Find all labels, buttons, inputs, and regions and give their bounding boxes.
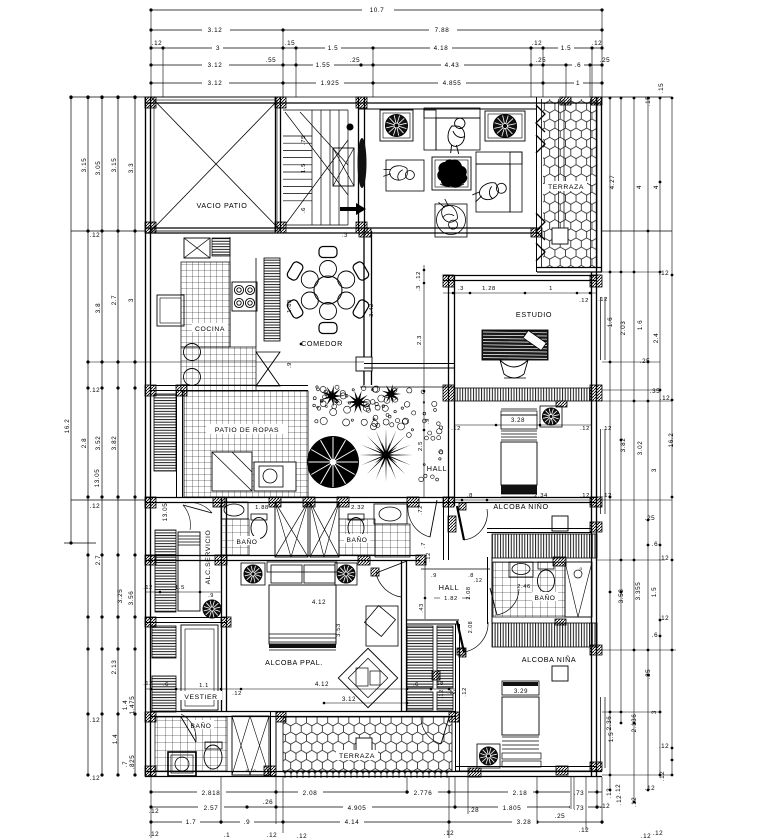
banio master shower [232, 716, 269, 775]
wall stairs right [358, 97, 360, 231]
vestier striped closet lower [152, 676, 176, 712]
wall vestier top [145, 617, 227, 619]
banio master sink [168, 752, 196, 776]
dimension extension verticals top [150, 10, 152, 97]
svg-text:.12: .12 [641, 833, 652, 839]
banio left sink [221, 502, 248, 519]
chair with person bottom [435, 204, 467, 237]
banio nina shower [565, 562, 592, 617]
svg-text:2.18: 2.18 [513, 790, 528, 797]
svg-text:2.3: 2.3 [417, 335, 423, 345]
banio nina sink [509, 562, 533, 577]
cocina fridge [157, 295, 184, 326]
svg-text:.12: .12 [532, 40, 543, 47]
stair box with X [333, 148, 354, 186]
top wall [145, 102, 602, 104]
svg-text:.12: .12 [659, 615, 670, 622]
wall below living room [145, 227, 537, 229]
svg-text:3.8: 3.8 [95, 303, 102, 314]
svg-text:1.6: 1.6 [607, 317, 614, 328]
svg-text:o: o [579, 566, 582, 571]
svg-text:.15: .15 [658, 83, 665, 94]
svg-text:1.5: 1.5 [175, 585, 185, 591]
svg-text:3: 3 [128, 298, 135, 302]
alcoba nina dresser [502, 753, 541, 759]
svg-text:.55: .55 [266, 57, 277, 64]
estudio chair [500, 360, 528, 378]
wall cocina/patio boundary [151, 385, 308, 387]
svg-text:.26: .26 [263, 799, 274, 806]
svg-text:.3: .3 [416, 285, 422, 291]
svg-text:.25: .25 [640, 358, 651, 365]
speaker box left [380, 110, 413, 141]
stair diagonals [285, 112, 348, 195]
svg-text:.12: .12 [297, 833, 308, 839]
svg-text:.3: .3 [342, 233, 348, 239]
svg-text:VESTIER: VESTIER [184, 694, 217, 701]
banio master tiles [155, 717, 227, 771]
wall estudio top [443, 275, 596, 277]
sofa right with person [476, 152, 522, 164]
svg-text:HALL: HALL [427, 464, 447, 473]
vacio patio diagonals [151, 97, 281, 231]
svg-text:TERRAZA: TERRAZA [548, 184, 584, 191]
svg-text:1.5: 1.5 [608, 732, 615, 743]
svg-text:3.15: 3.15 [81, 158, 88, 173]
alc servicio door [183, 505, 212, 513]
svg-text:13.05: 13.05 [94, 469, 101, 488]
svg-text:.12: .12 [462, 687, 468, 697]
svg-text:3.02: 3.02 [637, 441, 644, 456]
patio ropas washer [212, 452, 252, 491]
garden scattered shrubs [340, 390, 345, 395]
svg-text:2.818: 2.818 [202, 790, 221, 797]
svg-text:2.8: 2.8 [81, 438, 88, 449]
svg-text:.12: .12 [602, 493, 612, 499]
dim line y362 across kitchen [88, 361, 364, 363]
cocina sink circles [184, 344, 201, 361]
svg-text:.12: .12 [473, 578, 482, 584]
cocina counter lines [229, 237, 231, 347]
wall bathrooms strip top [145, 497, 597, 499]
label BANIO master [188, 720, 214, 729]
speaker box right [485, 111, 525, 141]
banio master toilet [204, 745, 222, 769]
svg-text:.12: .12 [426, 552, 432, 562]
wall hatch blocks [145, 97, 156, 108]
svg-text:3.12: 3.12 [208, 80, 223, 87]
svg-text:3.52: 3.52 [95, 436, 102, 451]
alcoba ninio bottom wall [487, 528, 592, 530]
svg-text:7.88: 7.88 [435, 27, 450, 34]
estudio closet striped band [455, 388, 590, 401]
vacio patio outline [151, 97, 281, 231]
svg-text:.12: .12 [660, 395, 671, 402]
svg-text:1.5: 1.5 [328, 45, 339, 52]
svg-text:16.2: 16.2 [668, 433, 675, 448]
cocina stove [232, 282, 257, 311]
svg-text:3.28: 3.28 [517, 819, 532, 826]
terraza door arc [441, 717, 449, 744]
svg-text:ALCOBA NIÑA: ALCOBA NIÑA [522, 655, 577, 664]
alcoba ninio bottom dims [455, 499, 592, 501]
right outer wall main [591, 272, 593, 777]
svg-text:10.7: 10.7 [370, 7, 385, 14]
svg-text:.12: .12 [615, 784, 622, 795]
svg-text:.12: .12 [580, 493, 590, 499]
svg-text:.25: .25 [536, 57, 547, 64]
terraza column box [552, 228, 568, 244]
svg-text:.12: .12 [653, 830, 664, 837]
label VESTIER [180, 691, 222, 700]
svg-text:3.42: 3.42 [369, 303, 375, 317]
terraza bottom hex paving [283, 717, 452, 771]
armchair with person [386, 160, 424, 191]
banio nina toilet [538, 562, 554, 569]
alcoba ninio column box [552, 516, 568, 531]
alcoba ppal bed [267, 562, 337, 572]
svg-text:3.12: 3.12 [208, 62, 223, 69]
alcoba ninio closet band [492, 534, 597, 558]
svg-text:.35: .35 [650, 388, 661, 395]
svg-text:.12: .12 [616, 795, 623, 806]
svg-text:.25: .25 [555, 813, 566, 820]
svg-text:COMEDOR: COMEDOR [301, 339, 343, 348]
dimension lines bottom [151, 791, 602, 793]
svg-text:3.05: 3.05 [95, 161, 102, 176]
svg-text:.9: .9 [208, 593, 214, 599]
svg-text:.12: .12 [152, 40, 163, 47]
svg-text:2.03: 2.03 [620, 321, 627, 336]
svg-text:HALL: HALL [439, 583, 459, 592]
banio left shower [275, 502, 308, 557]
alcoba ppal fans [241, 563, 265, 585]
label TERRAZA bottom [336, 750, 378, 760]
svg-text:.6: .6 [575, 62, 581, 69]
svg-text:.12: .12 [143, 585, 153, 591]
banio right tiles [339, 519, 375, 555]
svg-text:2.4: 2.4 [653, 333, 660, 344]
wall comedor right [363, 231, 365, 385]
svg-text:VACIO PATIO: VACIO PATIO [197, 201, 248, 210]
dimension line top 3.12 / 7.88 [151, 29, 602, 31]
svg-text:TERRAZA: TERRAZA [339, 753, 375, 760]
svg-text:1.4: 1.4 [122, 700, 129, 711]
svg-text:2.136: 2.136 [631, 714, 638, 733]
terraza bottom column box [356, 738, 372, 753]
hall closet left [407, 626, 433, 688]
svg-text:.9: .9 [244, 819, 250, 826]
cocina hood box [184, 238, 210, 258]
svg-text:.12: .12 [659, 270, 670, 277]
svg-text:3.82: 3.82 [111, 436, 118, 451]
svg-text:.6: .6 [652, 541, 658, 548]
svg-text:.12: .12 [606, 788, 613, 799]
svg-text:ALCOBA NIÑO: ALCOBA NIÑO [493, 502, 548, 511]
stair treads [283, 135, 312, 137]
banio nina door [490, 588, 497, 615]
banio right toilet [348, 518, 364, 539]
right dim short row lines [602, 271, 660, 273]
svg-text:3.29: 3.29 [514, 689, 528, 695]
svg-text:.12: .12 [579, 827, 590, 834]
svg-text:13.05: 13.05 [162, 503, 169, 522]
svg-text:2.08: 2.08 [466, 586, 472, 599]
svg-text:4.12: 4.12 [312, 600, 326, 606]
svg-text:1.7: 1.7 [186, 819, 197, 826]
right dimension ticks [609, 97, 612, 100]
svg-text:BAÑO: BAÑO [346, 535, 367, 544]
svg-text:.12: .12 [267, 832, 278, 839]
svg-text:.12: .12 [451, 426, 461, 432]
svg-text:1: 1 [576, 80, 580, 87]
svg-text:1: 1 [549, 286, 553, 292]
dimension line top row4 [151, 64, 602, 66]
svg-text:.12: .12 [90, 232, 101, 239]
svg-text:.9: .9 [287, 362, 293, 368]
svg-text:.12: .12 [659, 771, 666, 782]
wall alc.servicio right [221, 497, 223, 712]
banio left tiles [221, 519, 249, 555]
label PATIO DE ROPAS [206, 424, 288, 434]
dimension extension verticals bottom [150, 777, 152, 838]
svg-text:.72: .72 [418, 505, 424, 515]
garden big bush [307, 436, 359, 488]
alcoba nina door [457, 621, 464, 652]
svg-text:.12: .12 [598, 297, 608, 303]
svg-text:.12: .12 [90, 387, 101, 394]
svg-text:.15: .15 [285, 40, 296, 47]
bottom outer wall [145, 771, 602, 773]
svg-text:1.5: 1.5 [301, 163, 307, 173]
stair newel dot [347, 124, 354, 131]
alc servicio closet [155, 530, 176, 612]
dimension line bottom row3 [151, 821, 602, 823]
cocina pantry striped [264, 258, 280, 341]
svg-text:ESTUDIO: ESTUDIO [516, 310, 552, 319]
svg-text:.12: .12 [659, 743, 670, 750]
banio nina tiles [493, 562, 565, 617]
wall living/terrace zigzag [536, 97, 538, 272]
svg-text:.12: .12 [580, 426, 590, 432]
patio de ropas tiles [184, 391, 308, 497]
framed plant table [432, 157, 471, 190]
svg-text:4.27: 4.27 [609, 175, 616, 190]
svg-text:2.776: 2.776 [414, 790, 433, 797]
svg-text:.7: .7 [421, 542, 427, 548]
svg-text:3.25: 3.25 [117, 589, 124, 604]
svg-text:2.08: 2.08 [468, 621, 474, 634]
terraza hex paving [543, 99, 597, 267]
alc servicio fan [203, 600, 221, 618]
svg-text:o °o: o °o [246, 768, 256, 773]
svg-text:.825: .825 [129, 755, 136, 770]
alcoba nina column box [552, 666, 568, 681]
left outer wall [145, 97, 147, 777]
banio nina wall west [487, 557, 489, 624]
wall hall/bath divider [443, 497, 445, 560]
svg-text:.6: .6 [301, 207, 307, 213]
svg-text:4.43: 4.43 [445, 62, 460, 69]
svg-text:1.5: 1.5 [651, 587, 658, 598]
stair direction arrow [340, 203, 366, 215]
svg-text:4.18: 4.18 [434, 45, 449, 52]
dimension verticals right [609, 98, 611, 790]
estudio dim row [443, 292, 596, 294]
svg-text:2.5: 2.5 [418, 441, 424, 451]
svg-text:1.5: 1.5 [561, 45, 572, 52]
svg-text:3: 3 [651, 468, 658, 472]
terraza bottom railing [284, 771, 448, 778]
alcoba ninio fan [540, 406, 562, 427]
patio ropas closet striped [154, 394, 176, 471]
svg-text:3.28: 3.28 [511, 418, 525, 424]
wall bathrooms strip bottom [145, 555, 421, 557]
svg-text:.12: .12 [149, 808, 160, 815]
banio right door arc [430, 500, 437, 537]
stair door dark leaf [358, 138, 367, 188]
label BANIO left [234, 536, 260, 545]
hall dims [424, 555, 426, 619]
svg-text:1.82: 1.82 [444, 596, 458, 602]
svg-text:.43: .43 [419, 603, 425, 613]
terraza beam lines [558, 99, 560, 228]
wall terrace top-right bottom [537, 267, 602, 269]
svg-text:.25: .25 [600, 57, 611, 64]
alcoba ppal door [376, 561, 407, 573]
label BANIO nina [532, 592, 558, 601]
right outer wall terrace [596, 97, 598, 272]
svg-text:.9: .9 [431, 573, 437, 579]
svg-text:2.08: 2.08 [303, 790, 318, 797]
alcoba ninio dim row [455, 424, 592, 426]
svg-text:3.56: 3.56 [128, 591, 135, 606]
top boundary line [71, 96, 672, 98]
vestier closet box [181, 625, 218, 710]
svg-text:3.53: 3.53 [336, 623, 342, 637]
dimension verticals left [70, 97, 72, 543]
dimension line top row5 [151, 82, 602, 84]
svg-text:.12: .12 [90, 717, 101, 724]
svg-text:BAÑO: BAÑO [534, 593, 555, 602]
dimension line bottom row2 [151, 806, 602, 808]
svg-text:.73: .73 [574, 790, 585, 797]
vestier striped closet upper [152, 626, 176, 658]
label BANIO right [344, 534, 370, 543]
svg-text:ALC.SERVICIO: ALC.SERVICIO [205, 530, 212, 585]
svg-text:.12: .12 [579, 298, 589, 304]
hall closet right [437, 626, 453, 688]
alc servicio bed [178, 532, 200, 611]
garden palm [359, 428, 413, 482]
column box comedor wall [356, 357, 372, 371]
svg-text:.12: .12 [592, 40, 603, 47]
svg-text:.12: .12 [232, 691, 242, 697]
banio left toilet [251, 518, 267, 539]
dimension line top 10.7 [151, 9, 602, 11]
sofa top middle [424, 108, 480, 118]
svg-text:3.82: 3.82 [620, 438, 627, 453]
alcoba ppal armchair [366, 606, 398, 646]
svg-text:.12: .12 [600, 803, 611, 810]
banio right sink [374, 504, 407, 524]
label TERRAZA top [545, 181, 587, 191]
banio right shower [310, 502, 339, 557]
svg-text:.28: .28 [469, 807, 480, 814]
patio ropas dryer [254, 462, 296, 491]
wall stairs left [275, 97, 277, 231]
alcoba ppal diamond table [338, 648, 397, 707]
svg-text:3: 3 [651, 710, 658, 714]
svg-text:2.32: 2.32 [351, 505, 365, 511]
banio master door [181, 717, 196, 742]
svg-text:3.12: 3.12 [342, 697, 356, 703]
wall patio ropas left [176, 390, 178, 497]
alcoba nina bed [502, 681, 539, 695]
svg-text:2.36: 2.36 [606, 716, 613, 731]
svg-text:2.34: 2.34 [534, 493, 548, 499]
svg-text:4: 4 [636, 185, 643, 189]
svg-text:2.13: 2.13 [111, 660, 118, 675]
svg-text:ALCOBA PPAL.: ALCOBA PPAL. [265, 658, 323, 667]
svg-text:4.855: 4.855 [443, 80, 462, 87]
svg-text:1.475: 1.475 [129, 696, 136, 715]
svg-text:COCINA: COCINA [195, 326, 225, 333]
svg-text:2.57: 2.57 [204, 805, 219, 812]
svg-text:4.905: 4.905 [348, 805, 367, 812]
svg-text:.1: .1 [224, 832, 230, 839]
svg-text:.75: .75 [301, 135, 307, 145]
svg-text:.25: .25 [645, 669, 652, 680]
svg-text:.7: .7 [122, 761, 129, 767]
svg-text:1.805: 1.805 [503, 805, 522, 812]
svg-text:.73: .73 [574, 805, 585, 812]
svg-text:4.14: 4.14 [345, 819, 360, 826]
alcoba ninio bed [501, 408, 537, 410]
svg-text:.12: .12 [90, 775, 101, 782]
alcoba nina closet band [492, 623, 597, 647]
comedor dining table [314, 276, 342, 304]
svg-text:.12: .12 [416, 271, 422, 281]
right window lines [600, 297, 602, 360]
svg-text:.12: .12 [149, 831, 160, 838]
svg-text:.9: .9 [425, 418, 431, 424]
svg-text:16.2: 16.2 [64, 419, 71, 434]
svg-text:1.1: 1.1 [199, 683, 209, 689]
svg-text:.12: .12 [659, 555, 670, 562]
svg-text:3.355: 3.355 [635, 582, 642, 601]
alcoba ninio door [457, 506, 464, 540]
svg-text:4.12: 4.12 [315, 682, 329, 688]
svg-text:4: 4 [653, 185, 660, 189]
svg-text:3.15: 3.15 [111, 158, 118, 173]
dim 3.12 terraza [324, 702, 407, 704]
svg-text:PATIO DE ROPAS: PATIO DE ROPAS [215, 427, 279, 434]
svg-text:3: 3 [216, 45, 220, 52]
stair verticals [311, 110, 313, 225]
svg-text:3.58: 3.58 [618, 589, 625, 604]
svg-text:.3: .3 [458, 286, 464, 292]
svg-text:1.28: 1.28 [482, 286, 496, 292]
cocina tiles [181, 262, 230, 347]
svg-text:1.88: 1.88 [287, 299, 293, 313]
wall alcoba nina west [455, 624, 457, 771]
wall estudio/ninos left [448, 275, 450, 506]
svg-text:1.6: 1.6 [637, 320, 644, 331]
wall alcoba ppal east [401, 560, 403, 712]
svg-text:1.925: 1.925 [321, 80, 340, 87]
svg-text:BAÑO: BAÑO [190, 721, 211, 730]
